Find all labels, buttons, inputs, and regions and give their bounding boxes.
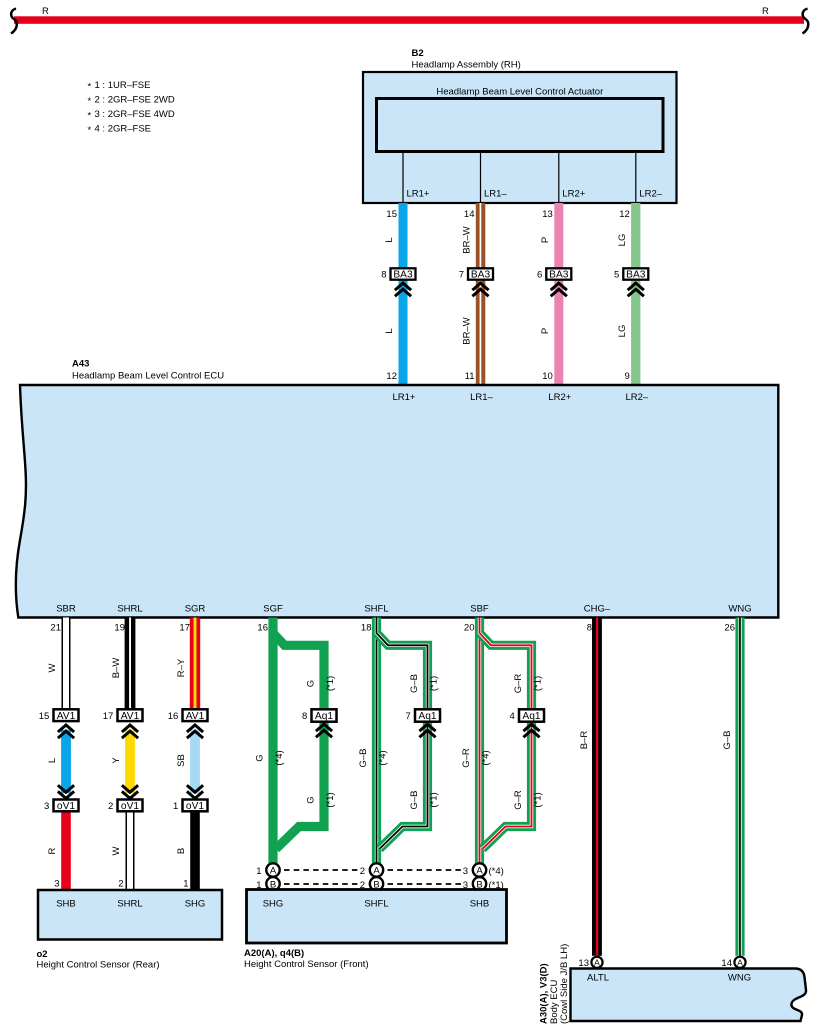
svg-text:15: 15 <box>39 711 50 722</box>
svg-text:R: R <box>42 6 49 17</box>
svg-text:8: 8 <box>381 270 386 281</box>
svg-text:14: 14 <box>464 209 475 220</box>
svg-text:*: * <box>88 96 92 107</box>
svg-text:LG: LG <box>617 234 628 247</box>
svg-text:2: 2 <box>118 879 123 890</box>
svg-text:SHRL: SHRL <box>117 899 142 910</box>
svg-text:oV1: oV1 <box>57 801 75 812</box>
svg-text:(*1): (*1) <box>429 792 440 807</box>
svg-text:L: L <box>384 237 395 242</box>
svg-text:Height Control Sensor (Rear): Height Control Sensor (Rear) <box>37 960 160 971</box>
svg-text:G–R: G–R <box>513 790 524 810</box>
svg-text:LR1+: LR1+ <box>407 189 430 200</box>
svg-text:L: L <box>47 758 58 763</box>
svg-text:3: 3 <box>463 866 468 877</box>
svg-text:A: A <box>737 957 743 967</box>
svg-text:AV1: AV1 <box>186 711 205 722</box>
svg-text:3: 3 <box>54 879 59 890</box>
svg-text:G–B: G–B <box>358 748 369 767</box>
svg-text:16: 16 <box>257 623 268 634</box>
svg-text:5: 5 <box>614 270 619 281</box>
svg-text:Headlamp Beam Level Control Ac: Headlamp Beam Level Control Actuator <box>436 87 603 98</box>
svg-text:G: G <box>255 754 266 761</box>
svg-text:*: * <box>88 82 92 93</box>
svg-text:BA3: BA3 <box>626 270 646 281</box>
svg-text:21: 21 <box>50 623 61 634</box>
svg-text:WNG: WNG <box>728 604 751 615</box>
svg-text:R: R <box>762 6 769 17</box>
svg-text:(*4): (*4) <box>481 750 492 765</box>
svg-text:4: 4 <box>510 711 515 722</box>
svg-text:(Cowl Side J/B LH): (Cowl Side J/B LH) <box>559 944 570 1024</box>
svg-text:LR2+: LR2+ <box>548 392 571 403</box>
svg-text:G–B: G–B <box>722 730 733 749</box>
svg-text:1: 1 <box>173 801 178 812</box>
svg-text:SHG: SHG <box>185 899 206 910</box>
svg-text:G–B: G–B <box>409 674 420 693</box>
svg-text:12: 12 <box>619 209 630 220</box>
svg-text:7: 7 <box>406 711 411 722</box>
svg-text:8: 8 <box>587 623 592 634</box>
svg-text:(*1): (*1) <box>325 676 336 691</box>
svg-text:SBF: SBF <box>470 604 489 615</box>
svg-text:G–R: G–R <box>461 748 472 768</box>
svg-text:BA3: BA3 <box>471 270 491 281</box>
svg-text:(*4): (*4) <box>378 750 389 765</box>
svg-text:17: 17 <box>103 711 114 722</box>
svg-text:18: 18 <box>361 623 372 634</box>
svg-text:B2: B2 <box>412 48 424 59</box>
svg-text:BA3: BA3 <box>549 270 569 281</box>
svg-text:26: 26 <box>724 623 735 634</box>
svg-text:20: 20 <box>464 623 475 634</box>
svg-text:SGR: SGR <box>185 604 206 615</box>
svg-text:Height Control Sensor (Front): Height Control Sensor (Front) <box>244 959 369 970</box>
svg-text:R: R <box>47 847 58 854</box>
svg-text:P: P <box>540 237 551 243</box>
svg-text:(*1): (*1) <box>429 676 440 691</box>
svg-text:Headlamp Assembly (RH): Headlamp Assembly (RH) <box>412 60 521 71</box>
svg-text:1: 1 <box>183 879 188 890</box>
svg-text:4 : 2GR–FSE: 4 : 2GR–FSE <box>95 124 152 135</box>
svg-text:*: * <box>88 111 92 122</box>
svg-text:7: 7 <box>459 270 464 281</box>
svg-text:B–R: B–R <box>579 731 590 750</box>
svg-text:Headlamp Beam Level Control EC: Headlamp Beam Level Control ECU <box>72 370 224 381</box>
svg-text:oV1: oV1 <box>186 801 204 812</box>
svg-text:3: 3 <box>44 801 49 812</box>
svg-text:(*4): (*4) <box>274 750 285 765</box>
svg-text:LR1–: LR1– <box>484 189 507 200</box>
svg-text:SB: SB <box>176 754 187 767</box>
svg-text:3 : 2GR–FSE 4WD: 3 : 2GR–FSE 4WD <box>95 109 175 120</box>
svg-text:B: B <box>176 848 187 854</box>
svg-text:SHB: SHB <box>470 899 490 910</box>
svg-text:SHFL: SHFL <box>364 604 388 615</box>
svg-text:1 : 1UR–FSE: 1 : 1UR–FSE <box>95 80 151 91</box>
svg-text:LR2–: LR2– <box>625 392 648 403</box>
svg-text:2 : 2GR–FSE 2WD: 2 : 2GR–FSE 2WD <box>95 95 175 106</box>
svg-text:A: A <box>594 957 600 967</box>
svg-text:(*1): (*1) <box>325 792 336 807</box>
svg-text:6: 6 <box>537 270 542 281</box>
svg-text:(*1): (*1) <box>533 792 544 807</box>
svg-text:BR–W: BR–W <box>462 317 473 344</box>
svg-text:8: 8 <box>302 711 307 722</box>
svg-text:19: 19 <box>114 623 125 634</box>
svg-text:SHG: SHG <box>263 899 284 910</box>
svg-text:AV1: AV1 <box>121 711 140 722</box>
svg-text:11: 11 <box>465 371 475 382</box>
svg-text:WNG: WNG <box>728 973 751 984</box>
svg-text:LR2–: LR2– <box>639 189 662 200</box>
svg-text:LR1–: LR1– <box>470 392 493 403</box>
svg-text:R–Y: R–Y <box>176 658 187 677</box>
svg-text:Aq1: Aq1 <box>418 711 436 722</box>
svg-text:BR–W: BR–W <box>462 226 473 253</box>
svg-text:SHB: SHB <box>56 899 76 910</box>
svg-text:A30(A), V3(D): A30(A), V3(D) <box>539 963 550 1024</box>
svg-text:Aq1: Aq1 <box>315 711 333 722</box>
svg-text:P: P <box>540 328 551 334</box>
svg-text:A: A <box>373 866 380 877</box>
svg-text:G–B: G–B <box>409 790 420 809</box>
svg-text:SHRL: SHRL <box>117 604 142 615</box>
svg-text:16: 16 <box>168 711 179 722</box>
svg-text:13: 13 <box>542 209 553 220</box>
svg-text:10: 10 <box>542 371 553 382</box>
svg-text:Aq1: Aq1 <box>522 711 540 722</box>
svg-text:*: * <box>88 125 92 136</box>
svg-text:9: 9 <box>625 371 630 382</box>
svg-text:(*4): (*4) <box>489 866 504 877</box>
svg-text:L: L <box>384 328 395 333</box>
svg-text:SGF: SGF <box>263 604 283 615</box>
svg-text:17: 17 <box>179 623 190 634</box>
svg-text:G–R: G–R <box>513 674 524 694</box>
svg-text:Y: Y <box>111 757 122 764</box>
svg-text:(*1): (*1) <box>533 676 544 691</box>
svg-text:A20(A), q4(B): A20(A), q4(B) <box>244 948 304 959</box>
svg-text:A43: A43 <box>72 359 89 370</box>
svg-text:A: A <box>476 866 483 877</box>
svg-text:1: 1 <box>256 866 261 877</box>
svg-text:2: 2 <box>360 866 365 877</box>
svg-text:W: W <box>47 663 58 672</box>
svg-text:12: 12 <box>386 371 397 382</box>
svg-text:SHFL: SHFL <box>364 899 388 910</box>
svg-text:BA3: BA3 <box>393 270 413 281</box>
svg-text:LR1+: LR1+ <box>393 392 416 403</box>
svg-text:o2: o2 <box>37 949 48 960</box>
svg-text:B–W: B–W <box>111 658 122 679</box>
svg-text:oV1: oV1 <box>121 801 139 812</box>
svg-text:G: G <box>306 796 317 803</box>
svg-text:ALTL: ALTL <box>587 973 609 984</box>
svg-text:15: 15 <box>386 209 397 220</box>
svg-text:G: G <box>306 680 317 687</box>
svg-text:SBR: SBR <box>56 604 76 615</box>
svg-text:2: 2 <box>108 801 113 812</box>
svg-text:LR2+: LR2+ <box>562 189 585 200</box>
svg-text:CHG–: CHG– <box>584 604 611 615</box>
svg-text:LG: LG <box>617 325 628 338</box>
svg-text:W: W <box>111 846 122 855</box>
svg-text:AV1: AV1 <box>57 711 76 722</box>
svg-text:A: A <box>270 866 277 877</box>
